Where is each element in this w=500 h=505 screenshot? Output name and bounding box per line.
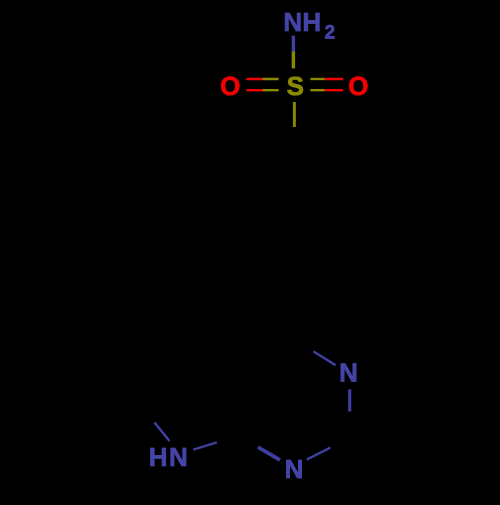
svg-text:H: H bbox=[302, 7, 321, 37]
svg-text:O: O bbox=[348, 71, 368, 101]
double bond S=O left, upper line (O half) bbox=[246, 78, 262, 80]
double bond S=O right, lower line (O half) bbox=[325, 89, 343, 91]
bond N-S (N half) bbox=[292, 36, 295, 52]
bond C4-N3 (N half) bbox=[313, 351, 335, 365]
double bond S=O left, lower line (S half) bbox=[263, 89, 279, 91]
bond C6-N7 (N half) bbox=[155, 423, 170, 442]
double bond S=O right, lower line (S half) bbox=[310, 89, 324, 91]
svg-text:N: N bbox=[283, 7, 302, 37]
bond N-S (S half) bbox=[292, 52, 295, 69]
double bond N3=C2 (N half, merged pair) bbox=[348, 389, 351, 411]
double bond S=O right, upper line (S half) bbox=[310, 78, 324, 80]
double bond S=O right, upper line (O half) bbox=[325, 78, 343, 80]
double bond S=O left, upper line (S half) bbox=[263, 78, 279, 80]
svg-text:N: N bbox=[339, 358, 358, 388]
svg-text:O: O bbox=[220, 71, 240, 101]
pyrrole HN label (N7) bbox=[149, 442, 188, 472]
double bond S=O left, lower line (O half) bbox=[246, 89, 262, 91]
svg-text:N: N bbox=[285, 454, 304, 484]
svg-text:S: S bbox=[287, 71, 304, 101]
svg-text:2: 2 bbox=[325, 23, 336, 44]
bond N1-C2 (N half) bbox=[307, 448, 331, 460]
svg-text:N: N bbox=[169, 442, 188, 472]
bond N7-C7a (N half) bbox=[193, 442, 216, 449]
amide N label NH2 bbox=[283, 7, 335, 44]
bond S-C chain (S half, C half invisible) bbox=[293, 102, 296, 127]
svg-text:H: H bbox=[149, 442, 168, 472]
double bond C7a=N1 (N half, merged pair) bbox=[258, 447, 280, 460]
